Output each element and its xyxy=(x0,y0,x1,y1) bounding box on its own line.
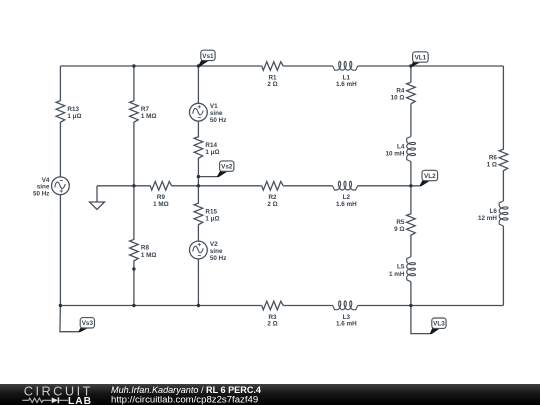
wire: middle rail R2 to L2 xyxy=(283,185,332,187)
CircuitLab logo: resistor-diode symbol xyxy=(22,397,68,403)
svg-text:R4: R4 xyxy=(396,87,405,94)
wire: left branch middle xyxy=(59,122,61,177)
svg-text:R6: R6 xyxy=(489,154,498,161)
node: Vs1 xyxy=(197,64,200,67)
svg-text:2 Ω: 2 Ω xyxy=(267,201,277,208)
footer bar xyxy=(0,384,540,405)
wire: R4 to L4 xyxy=(410,104,412,137)
resistor R15 xyxy=(194,203,219,225)
node: Vs2 junction xyxy=(197,175,200,178)
svg-text:2 Ω: 2 Ω xyxy=(267,81,277,88)
wire: R15 to V2 xyxy=(197,224,199,241)
flag VL2 xyxy=(419,170,437,186)
svg-text:R13: R13 xyxy=(67,106,79,113)
svg-text:L6: L6 xyxy=(490,208,498,215)
wire: top rail between R1 and L1 xyxy=(283,65,332,67)
voltage source V2 xyxy=(190,241,227,262)
wire: R14 to middle rail xyxy=(197,158,199,186)
wire: middle rail ground segment xyxy=(97,185,150,187)
svg-text:VL2: VL2 xyxy=(424,173,436,180)
wire: R6 to L6 xyxy=(502,170,504,201)
svg-text:Muh.Irfan.Kadaryanto / RL 6 PE: Muh.Irfan.Kadaryanto / RL 6 PERC.4 xyxy=(111,385,262,395)
flag Vs3 xyxy=(78,318,95,333)
svg-text:1 MΩ: 1 MΩ xyxy=(153,201,169,208)
svg-text:1 MΩ: 1 MΩ xyxy=(141,113,157,120)
resistor R6 xyxy=(487,149,508,171)
node: middle rail / V branch xyxy=(197,184,200,187)
wire: right branch bottom xyxy=(502,226,504,306)
flag VL3 xyxy=(430,318,446,334)
wire: V1 to R14 xyxy=(197,121,199,137)
voltage source V4 xyxy=(33,177,69,198)
flag Vs1 xyxy=(198,50,215,66)
svg-text:Vs3: Vs3 xyxy=(82,320,94,327)
svg-text:1 mH: 1 mH xyxy=(389,271,405,278)
node: VL1 xyxy=(409,64,412,67)
wire: L5 to bottom rail xyxy=(410,282,412,306)
wire: Vs3 stub xyxy=(60,306,78,332)
wire: middle rail R9 to R2 xyxy=(171,185,261,187)
wire: bottom rail between R3 and L3 xyxy=(283,305,332,307)
svg-text:1 MΩ: 1 MΩ xyxy=(141,252,157,259)
wire: right branch top xyxy=(502,66,504,150)
svg-text:2 Ω: 2 Ω xyxy=(267,321,277,328)
wire: V2 branch bottom xyxy=(197,259,199,306)
node: middle rail / R7 branch xyxy=(132,184,135,187)
resistor R2 xyxy=(262,182,284,208)
wire: left branch bottom xyxy=(59,195,61,306)
svg-text:1 μΩ: 1 μΩ xyxy=(67,113,81,120)
flag VL1 xyxy=(411,52,429,67)
wire: bottom rail left segment xyxy=(60,305,261,307)
wire: top rail right segment xyxy=(358,65,504,67)
CircuitLab logo: LAB text xyxy=(68,396,92,405)
wire: R7/R8 branch middle xyxy=(133,122,135,240)
svg-text:1.6 mH: 1.6 mH xyxy=(336,81,357,88)
node: top rail / R7 branch xyxy=(132,64,135,67)
svg-text:http://circuitlab.com/cp8z2s7f: http://circuitlab.com/cp8z2s7fazf49 xyxy=(111,395,258,405)
svg-text:1 μΩ: 1 μΩ xyxy=(205,216,219,223)
svg-text:L4: L4 xyxy=(397,143,405,150)
svg-text:12 mH: 12 mH xyxy=(478,215,497,222)
ground xyxy=(90,186,105,210)
svg-text:10 Ω: 10 Ω xyxy=(391,95,405,102)
node: bottom rail / left branch xyxy=(59,304,62,307)
svg-text:Vs2: Vs2 xyxy=(221,163,233,170)
resistor R1 xyxy=(262,62,284,88)
svg-text:Vs1: Vs1 xyxy=(202,53,214,60)
node: bottom rail / R8 branch xyxy=(132,304,135,307)
wire: VL3 stub xyxy=(411,306,430,334)
footer attribution line 1 xyxy=(111,385,262,395)
wire: R7/R8 branch bottom xyxy=(133,261,135,306)
resistor R9 xyxy=(150,182,172,208)
svg-text:50 Hz: 50 Hz xyxy=(210,117,226,124)
inductor L1 xyxy=(333,61,358,88)
svg-text:9 Ω: 9 Ω xyxy=(394,226,404,233)
svg-text:R15: R15 xyxy=(205,208,217,215)
svg-text:50 Hz: 50 Hz xyxy=(33,191,49,198)
inductor L5 xyxy=(389,257,416,282)
svg-text:1 μΩ: 1 μΩ xyxy=(205,149,219,156)
wire: R5 to L5 xyxy=(410,235,412,257)
svg-text:VL3: VL3 xyxy=(433,321,445,328)
inductor L3 xyxy=(333,301,358,328)
wire: middle rail L2 to VL2 xyxy=(358,185,420,187)
CircuitLab logo: CIRCUIT text xyxy=(24,383,93,398)
resistor R7 xyxy=(130,101,157,123)
svg-text:1.6 mH: 1.6 mH xyxy=(336,321,357,328)
svg-text:R8: R8 xyxy=(141,245,150,252)
svg-text:50 Hz: 50 Hz xyxy=(210,255,226,262)
wire: bottom rail right segment xyxy=(358,305,504,307)
node: bottom rail / V2 branch xyxy=(197,304,200,307)
resistor R14 xyxy=(194,137,219,159)
voltage source V1 xyxy=(190,103,227,124)
junction below R8 xyxy=(132,267,135,270)
resistor R13 xyxy=(56,101,81,123)
inductor L4 xyxy=(385,137,415,162)
wire: top rail left segment xyxy=(60,65,261,67)
svg-text:R14: R14 xyxy=(205,142,217,149)
wire: L4 through middle rail to R5 xyxy=(410,162,412,215)
svg-text:R5: R5 xyxy=(396,219,405,226)
inductor L2 xyxy=(333,181,358,208)
svg-text:1 Ω: 1 Ω xyxy=(487,162,497,169)
svg-text:L5: L5 xyxy=(397,264,405,271)
wire: Vs2 stub xyxy=(198,176,217,178)
node: VL3 xyxy=(409,304,412,307)
wire: middle rail to R15 xyxy=(197,186,199,204)
svg-text:10 mH: 10 mH xyxy=(385,151,404,158)
svg-text:1.6 mH: 1.6 mH xyxy=(336,201,357,208)
resistor R8 xyxy=(130,239,157,261)
wire: left branch top xyxy=(59,66,61,101)
wire: V1 branch top xyxy=(197,66,199,103)
svg-text:R7: R7 xyxy=(141,106,150,113)
flag Vs2 xyxy=(217,161,234,177)
resistor R5 xyxy=(394,214,415,236)
node: VL2 xyxy=(409,184,412,187)
wire: R7/R8 branch top xyxy=(133,66,135,101)
inductor L6 xyxy=(478,201,508,226)
wire: R4 branch top xyxy=(410,66,412,82)
resistor R3 xyxy=(262,301,284,327)
svg-text:VL1: VL1 xyxy=(415,54,427,61)
svg-text:LAB: LAB xyxy=(68,396,92,405)
footer attribution line 2 (plain text, not a link) xyxy=(111,395,258,405)
resistor R4 xyxy=(391,82,416,104)
